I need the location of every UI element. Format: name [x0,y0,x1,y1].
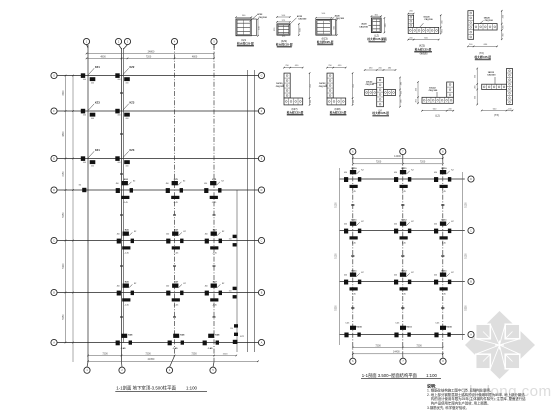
svg-text:14400: 14400 [393,351,400,354]
svg-text:KZ: KZ [183,231,186,233]
svg-text:450: 450 [344,275,347,277]
right plan axis row 3 [340,281,465,283]
right wall line [247,70,249,352]
watermark logo diamond [465,311,535,379]
svg-text:350: 350 [475,95,477,99]
svg-text:(T2): (T2) [479,52,484,55]
svg-text:KZ6: KZ6 [125,230,130,232]
svg-text:KZ6: KZ6 [125,282,130,284]
row bubble right C [258,237,264,243]
row bubble left G [51,72,57,78]
svg-text:C8@100: C8@100 [366,84,375,86]
svg-text:构的设计使用年限为25年(主体钢构件除外); 注意库, 屋面: 构的设计使用年限为25年(主体钢构件除外); 注意库, 屋面进行结 [431,396,526,401]
detail section KZ9 cross-shape [364,67,403,116]
column KZ8 row7 col3 [168,334,186,350]
svg-text:KZ: KZ [361,221,364,223]
svg-text:400: 400 [83,115,86,117]
svg-text:C8@100: C8@100 [276,86,285,88]
detail section KZ2 [274,15,307,48]
svg-text:450: 450 [204,183,207,185]
svg-text:KZ3: KZ3 [129,101,134,105]
svg-text:450: 450 [434,224,437,226]
svg-text:5100: 5100 [465,202,467,208]
svg-text:450: 450 [116,183,119,185]
column KZ5 row4 col3 [166,179,186,204]
svg-text:KZ11: KZ11 [406,327,412,329]
svg-text:-1.45: -1.45 [174,253,179,255]
svg-text:400: 400 [117,79,120,81]
svg-text:4C22: 4C22 [257,13,263,16]
right plan right bubble 4 [468,331,474,337]
svg-text:C8@100: C8@100 [429,90,438,92]
svg-text:400: 400 [91,82,94,84]
svg-text:450: 450 [310,83,312,87]
svg-text:KZ2: KZ2 [240,336,245,338]
svg-text:400: 400 [91,165,94,167]
svg-text:400: 400 [117,162,120,164]
svg-text:柱大样C25-层: 柱大样C25-层 [287,110,304,114]
svg-text:450: 450 [442,19,444,23]
svg-text:柱大样C25-层: 柱大样C25-层 [415,47,432,51]
svg-text:柱大样C25-层: 柱大样C25-层 [330,110,347,114]
column KZ7 y292.5 col4 [205,282,225,307]
right plan axis row 2 [340,230,465,232]
right plan top bubble 3 [440,148,446,154]
svg-text:1.45: 1.45 [442,243,447,245]
bottom dimension segments [88,355,236,357]
svg-text:KZ: KZ [133,181,136,183]
svg-text:D: D [261,189,263,192]
svg-text:5.05: 5.05 [435,323,440,325]
svg-text:350: 350 [475,74,477,78]
row bubble left D [51,187,57,193]
svg-text:450: 450 [415,87,417,91]
right plan bottom bubble 3 [440,358,446,364]
svg-text:150: 150 [229,291,232,293]
right plan axis col 1 [352,158,354,356]
svg-text:450: 450 [117,234,120,236]
svg-text:400: 400 [83,79,86,81]
svg-text:600: 600 [424,38,428,40]
svg-text:2. 地上部分钢筋混凝土结构的设计使用年限为50年, 地上部: 2. 地上部分钢筋混凝土结构的设计使用年限为50年, 地上部分钢结 [427,392,525,397]
svg-text:KZ10: KZ10 [356,327,362,329]
svg-text:450: 450 [117,286,120,288]
column KZ12 right plan r3c2 [394,271,414,296]
svg-text:5050: 5050 [63,212,65,218]
right plan right bubble 1 [468,176,474,182]
svg-text:7200: 7200 [420,161,426,164]
svg-text:450: 450 [344,224,347,226]
right wall line 2 [254,70,256,352]
svg-text:-1.45: -1.45 [173,347,179,350]
bottom axis bubble 2 [119,367,125,373]
bottom dimension overall [88,360,258,362]
row bubble right F [258,108,264,114]
svg-text:480: 480 [401,99,403,103]
column KZ11 right plan r4c2 [394,326,412,338]
axis line row D [58,189,259,191]
svg-text:5100: 5100 [336,202,338,208]
svg-text:KZ3: KZ3 [95,101,100,105]
axis line col 1 [87,45,89,362]
svg-text:3600: 3600 [63,90,65,96]
svg-text:(T3): (T3) [494,114,499,117]
svg-text:7250: 7250 [191,352,197,355]
column KZ4 row4 col2 [116,178,136,204]
svg-text:450: 450 [205,234,208,236]
svg-text:16C22: 16C22 [429,87,436,89]
svg-text:KZ7: KZ7 [213,282,218,284]
svg-text:5050: 5050 [63,314,65,320]
svg-text:450: 450 [434,172,437,174]
right plan axis row 1 [340,178,465,180]
column KZ1 row3 col1 [81,148,101,167]
svg-text:KZ5: KZ5 [212,179,217,181]
svg-text:400: 400 [125,82,128,84]
svg-text:1500: 1500 [223,353,229,355]
column KZ11 right plan r3c3 [434,271,454,296]
svg-text:C8@100: C8@100 [485,20,494,22]
svg-text:-1.45: -1.45 [124,305,129,307]
svg-text:1-1剖面 地下室顶-3.500柱平面: 1-1剖面 地下室顶-3.500柱平面 [116,385,176,392]
svg-text:7200: 7200 [146,55,152,58]
svg-text:200: 200 [409,38,413,40]
svg-text:375: 375 [282,36,286,38]
svg-text:柱大样C25-层: 柱大样C25-层 [237,41,254,45]
svg-text:1.45: 1.45 [352,294,357,296]
axis bubble 4 [171,38,177,44]
svg-text:450: 450 [338,65,342,67]
svg-text:C8@100: C8@100 [487,74,496,76]
svg-text:C: C [53,239,55,242]
svg-text:KZ11: KZ11 [352,220,358,222]
svg-text:G: G [261,74,263,77]
svg-text:-1.45: -1.45 [123,202,128,204]
svg-text:200: 200 [508,108,512,110]
column KZ10 right plan r4c1 [344,326,362,338]
svg-text:500: 500 [282,15,286,17]
svg-text:C: C [261,239,263,242]
row bubble right G [258,72,264,78]
right plan right bubble 3 [468,278,474,284]
svg-text:200: 200 [353,99,355,103]
svg-text:3.钢筋优先, 科学做好验收。: 3.钢筋优先, 科学做好验收。 [427,405,469,410]
detail section KZ11 T-shape mirrored [475,68,514,118]
detail section KZ4 [359,14,387,42]
left dim chain ticks [65,75,67,77]
svg-text:250: 250 [274,27,276,31]
svg-text:400: 400 [125,165,128,167]
svg-text:-1.45: -1.45 [121,347,127,350]
svg-text:-1.45: -1.45 [212,305,217,307]
column KZ11 right plan r1c2 [394,168,414,193]
svg-text:5300: 5300 [465,305,467,311]
column KZ5 row4 col4 [204,179,224,204]
axis line row G [58,75,259,77]
svg-text:450: 450 [205,286,208,288]
svg-text:400: 400 [91,118,94,120]
column KZ3 row3 col2 [115,148,135,167]
axis bubble 5 [211,38,217,44]
svg-text:KZ: KZ [183,181,186,183]
svg-text:5200: 5200 [63,263,65,269]
svg-text:KZ7: KZ7 [174,282,179,284]
svg-text:5300: 5300 [336,305,338,311]
column KZ10 right plan r4c3 [434,326,452,338]
svg-text:200: 200 [502,24,504,28]
svg-text:500: 500 [322,13,326,15]
axis bubble 1 [83,38,89,44]
small column row4 col1 [82,188,86,192]
svg-text:200: 200 [415,98,417,102]
svg-text:450: 450 [385,23,387,27]
row bubble right D [258,187,264,193]
svg-text:KZ3: KZ3 [129,148,134,152]
svg-text:24800: 24800 [148,51,155,54]
svg-text:KZ11: KZ11 [442,271,448,273]
column KZ7 y240.5 col4 [205,230,225,255]
svg-text:200: 200 [475,84,477,88]
bottom axis bubble 5 [210,367,216,373]
svg-text:(LZ): (LZ) [374,34,379,37]
svg-text:14400: 14400 [394,155,401,158]
svg-text:KZ: KZ [451,170,454,172]
svg-text:450: 450 [295,65,299,67]
svg-text:C8@100: C8@100 [336,18,345,20]
svg-text:450: 450 [166,286,169,288]
svg-text:1:100: 1:100 [426,373,437,378]
detail section KZ8 L-shape [319,65,355,116]
svg-text:C8@100: C8@100 [359,26,368,28]
svg-text:KZ: KZ [79,185,82,187]
column KZ12 right plan r2c2 [394,220,414,245]
axis line col 2 [121,48,123,362]
svg-text:D: D [470,178,472,181]
svg-text:450: 450 [166,234,169,236]
row bubble left A [51,339,57,345]
svg-text:480: 480 [369,67,373,69]
svg-text:KZ7: KZ7 [174,230,179,232]
svg-text:21650: 21650 [148,358,155,361]
column KZ3 row2 col2 [115,101,135,120]
svg-text:250: 250 [285,65,289,67]
svg-text:500: 500 [242,15,246,17]
svg-text:KZ11: KZ11 [402,168,408,170]
top dimension overall [87,53,215,55]
svg-text:600: 600 [493,108,497,110]
svg-text:C8@100: C8@100 [259,17,268,19]
svg-text:200: 200 [442,28,444,32]
svg-text:构产品使用年限内生产验收, 用上搁置。: 构产品使用年限内生产验收, 用上搁置。 [431,401,491,406]
column KZ3 row2 col1 [81,101,101,120]
row bubble left E [51,155,57,161]
right plan bottom bubble 2 [400,358,406,364]
axis line row B [58,292,259,294]
axis line row E [58,158,259,160]
row bubble left F [51,108,57,114]
svg-text:1.45: 1.45 [402,294,407,296]
row bubble left C [51,237,57,243]
svg-text:200: 200 [378,67,382,69]
column KZ1 row1 col1 [81,65,101,84]
svg-text:KZ4: KZ4 [124,178,129,181]
beam marks right plan [351,204,354,205]
column KZ2 row1 col2 [115,65,135,84]
column KZ8 row7 col2 [116,334,134,350]
left dim chain line [65,76,67,344]
svg-text:-1.45: -1.45 [208,347,214,350]
svg-text:KZ10: KZ10 [351,168,357,170]
svg-text:KZ: KZ [451,272,454,274]
column KZ10 right plan r1c1 [344,168,364,193]
row bubble right E [258,155,264,161]
left dim chain line 2 [72,76,74,363]
svg-text:200: 200 [448,109,452,111]
svg-text:KZ12: KZ12 [401,271,407,273]
svg-text:KZ: KZ [411,221,414,223]
column KZ11 right plan r2c3 [434,220,454,245]
svg-text:5.05: 5.05 [395,323,400,325]
svg-text:1.45: 1.45 [442,191,447,193]
svg-text:450: 450 [394,224,397,226]
svg-text:柱大样C25-层: 柱大样C25-层 [372,111,389,115]
svg-text:柱大样C25-屋面: 柱大样C25-屋面 [367,37,387,41]
bottom axis bubble 1 [84,367,90,373]
svg-text:4800: 4800 [192,55,198,58]
column KZ11 right plan r2c1 [344,220,364,245]
svg-text:1:100: 1:100 [186,386,198,391]
svg-text:450: 450 [434,275,437,277]
column KZ8 row7 col4 [203,334,221,350]
detail section KZ7 L-shape [276,65,312,116]
edge column y240.5 [229,235,237,247]
svg-text:-1.45: -1.45 [173,202,178,204]
right plan right edge [462,172,464,340]
svg-text:4800: 4800 [100,55,106,58]
svg-text:KZ8: KZ8 [215,335,220,337]
column KZ7 y240.5 col3 [166,230,186,255]
svg-text:KZ: KZ [361,170,364,172]
svg-text:200: 200 [310,99,312,103]
svg-text:C8@100: C8@100 [319,86,328,88]
svg-text:450: 450 [166,183,169,185]
right plan axis col 2 [402,158,404,356]
svg-text:7200: 7200 [102,352,108,355]
svg-text:KZ: KZ [134,231,137,233]
svg-text:7200: 7200 [375,344,381,347]
svg-text:1-1剖面 3.500~屋面结构平面: 1-1剖面 3.500~屋面结构平面 [362,372,418,379]
svg-text:-1.45: -1.45 [124,253,129,255]
axis bubble 2 [115,38,121,44]
svg-text:400: 400 [117,115,120,117]
svg-text:450: 450 [344,172,347,174]
svg-text:KZ: KZ [361,272,364,274]
svg-text:500: 500 [299,28,301,32]
svg-text:KZ: KZ [451,221,454,223]
svg-text:-1.45: -1.45 [212,202,217,204]
svg-text:1. 钢筋砼结构施工图中C25, 见结构总说明。: 1. 钢筋砼结构施工图中C25, 见结构总说明。 [427,388,493,393]
svg-text:400: 400 [125,118,128,120]
detail section KZ5 L-shape [407,11,443,55]
svg-text:KZ: KZ [222,283,225,285]
svg-text:KZ10: KZ10 [446,327,452,329]
axis line col 3 [174,45,176,356]
svg-text:KZ10: KZ10 [441,168,447,170]
svg-text:150: 150 [230,328,233,330]
right plan top dimension segments [353,163,443,165]
right plan top dimension overall [353,157,443,159]
svg-text:1.45: 1.45 [352,243,357,245]
svg-text:柱大样C25-层: 柱大样C25-层 [317,40,334,44]
edge column row7 [230,324,238,336]
top dimension segments [87,57,215,59]
svg-text:200: 200 [469,44,473,46]
svg-text:KZ: KZ [222,231,225,233]
svg-text:450: 450 [394,172,397,174]
svg-text:(L2): (L2) [435,114,439,117]
svg-text:KZ: KZ [183,283,186,285]
svg-text:1.45: 1.45 [402,191,407,193]
svg-text:说明:: 说明: [427,382,436,388]
svg-text:KZ: KZ [134,283,137,285]
svg-text:4C20: 4C20 [361,23,367,26]
svg-text:450: 450 [353,83,355,87]
svg-text:C8@100: C8@100 [424,19,433,21]
right plan top bubble 2 [400,148,406,154]
row bubble right B [258,289,264,295]
svg-text:500: 500 [259,26,261,30]
axis line row F [58,110,259,112]
svg-text:KZ12: KZ12 [401,220,407,222]
right plan left edge [339,168,341,345]
beam marks left plan [173,214,176,215]
column KZ7 y292.5 col3 [166,282,186,307]
svg-text:3150: 3150 [63,171,65,177]
svg-text:5100: 5100 [465,253,467,259]
axis line row A [58,342,259,344]
svg-text:KZ: KZ [411,170,414,172]
svg-text:1.45: 1.45 [402,243,407,245]
svg-text:7200: 7200 [376,161,382,164]
svg-text:-1.45: -1.45 [212,253,217,255]
bottom axis bubble 4 [166,367,172,373]
axis line col 2a [123,48,125,343]
svg-text:G: G [53,74,55,77]
column KZ11 right plan r3c1 [344,271,364,296]
svg-text:KZ1: KZ1 [95,65,100,69]
partial wall line [236,190,238,352]
axis line row C [58,240,259,242]
corner column row7 right [233,340,238,344]
svg-text:4C22: 4C22 [297,15,303,18]
svg-text:1.45: 1.45 [352,191,357,193]
svg-text:150: 150 [229,239,232,241]
svg-text:KZ7: KZ7 [213,230,218,232]
right plan axis col 3 [442,158,444,356]
svg-text:KZ: KZ [221,181,224,183]
svg-text:(KZ8): (KZ8) [335,108,341,111]
column KZ6 y292.5 col2 [117,282,137,307]
svg-text:400: 400 [83,162,86,164]
axis line col 4 [213,45,215,362]
svg-text:KZ11: KZ11 [442,220,448,222]
svg-text:KZ2: KZ2 [129,65,134,69]
svg-text:C8@100: C8@100 [298,18,307,20]
row bubble right A [258,339,264,345]
svg-text:480: 480 [388,67,392,69]
column KZ6 y240.5 col2 [117,230,137,255]
svg-text:4800: 4800 [63,131,65,137]
